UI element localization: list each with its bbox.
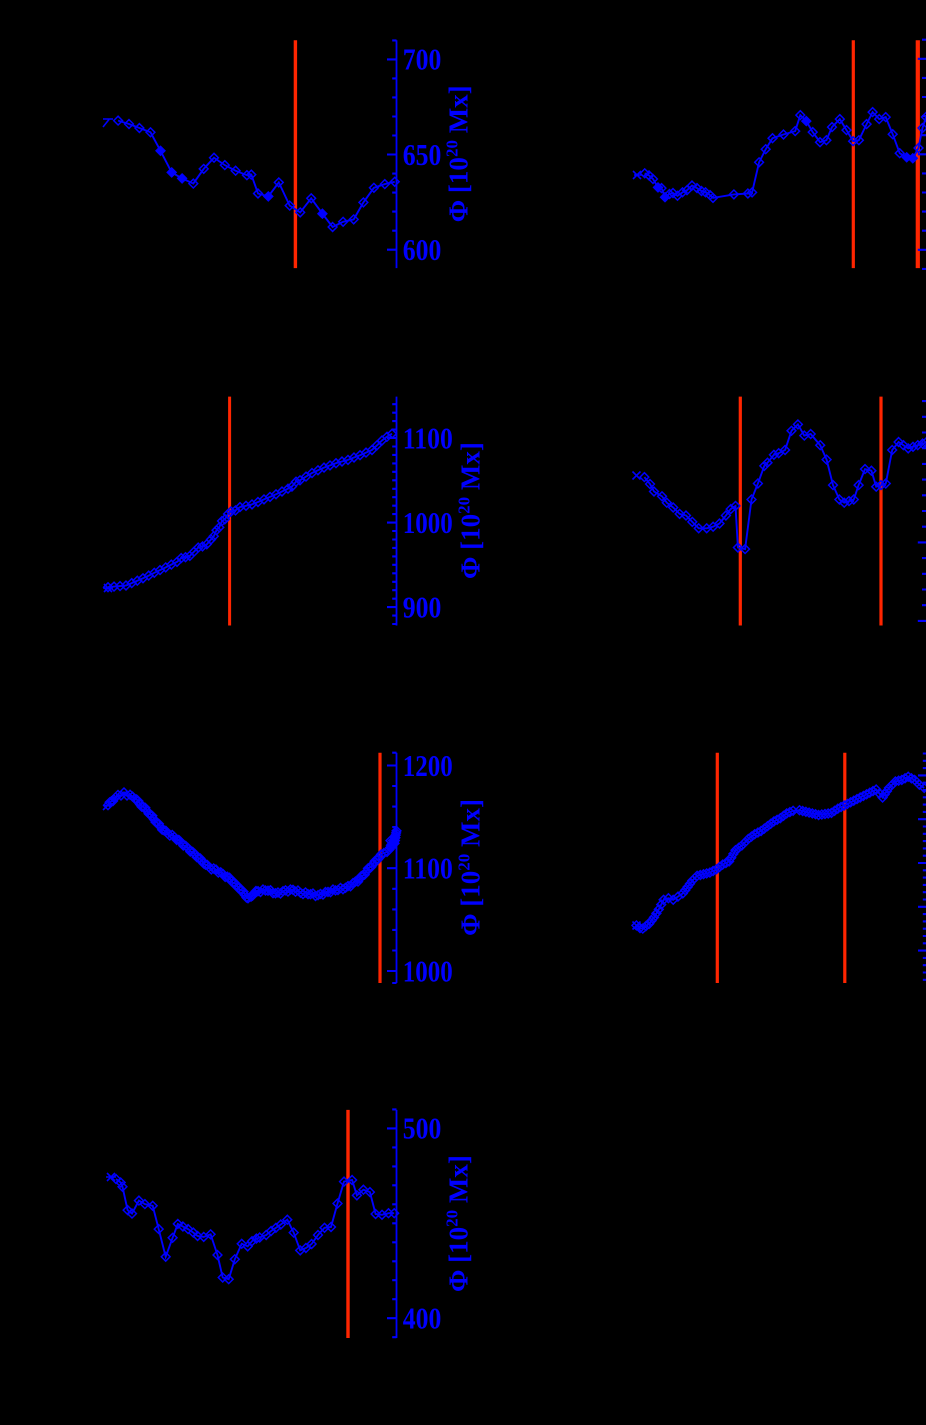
svg-text:650: 650 [403, 137, 442, 172]
panel 1 left y-axis line [396, 40, 398, 268]
panel 2 right flare line A [739, 397, 742, 626]
panel 2 left curve diamond markers [104, 429, 397, 591]
panel 1 left start mark [103, 119, 113, 127]
panel 1 right curve line [645, 112, 926, 198]
filled diamond markers (overlapping data points) [156, 117, 917, 218]
panel 2 right edge minor ticks [922, 401, 926, 605]
panel 1 right edge major ticks [918, 59, 926, 250]
svg-text:700: 700 [403, 42, 442, 77]
svg-text:900: 900 [403, 589, 442, 624]
svg-text:1100: 1100 [403, 851, 453, 886]
svg-text:1200: 1200 [403, 748, 453, 783]
panel 1 right curve diamond markers [640, 108, 926, 203]
panel 4 left flare line [346, 1110, 349, 1338]
panel 4 minor ticks [392, 1109, 396, 1337]
panel 3 minor ticks [392, 753, 396, 983]
svg-text:600: 600 [403, 232, 442, 267]
panel 1 right start mark [633, 171, 642, 179]
panel 1 right edge minor ticks [922, 40, 926, 269]
svg-text:1100: 1100 [403, 420, 453, 455]
svg-text:500: 500 [403, 1111, 442, 1146]
panel 2 left y-axis line [396, 397, 398, 626]
panel 2 major ticks [387, 438, 397, 607]
panel 2 left curve line [108, 434, 392, 588]
panel 2 right start mark [633, 472, 641, 480]
panel 3 major ticks [387, 766, 397, 972]
panel 4 left y-axis line [396, 1110, 398, 1338]
panel 2 right flare line B [879, 397, 882, 626]
panel 2 left flare line [228, 397, 231, 626]
panel 3 right flare line A [716, 753, 719, 983]
panel 3 right edge major ticks [918, 775, 926, 950]
panel 3 left start mark [103, 804, 111, 810]
panel 4 left curve line [116, 1179, 394, 1279]
panel 1 left curve diamond markers [114, 116, 399, 231]
panel 4 left curve diamond markers [112, 1175, 399, 1284]
svg-text:1000: 1000 [403, 953, 453, 988]
panel 4 major ticks [387, 1128, 397, 1318]
panel 1 left curve line [118, 121, 395, 227]
panel 3 right start mark [633, 922, 641, 930]
panel 1 minor ticks [392, 40, 396, 230]
panel 1 left flare line [294, 40, 297, 268]
panel 2 right curve diamond markers [640, 420, 926, 554]
panel 3 right curve diamond markers [632, 772, 926, 933]
panel 3 left y-axis line [396, 753, 398, 983]
svg-text:1000: 1000 [403, 505, 453, 540]
panel 1 right flare line A [852, 40, 855, 268]
panel 4 left start mark [106, 1173, 116, 1181]
panel 3 right edge minor ticks [923, 754, 926, 980]
panel 2 right edge major ticks [918, 542, 926, 621]
svg-text:400: 400 [403, 1301, 442, 1336]
panel 1 right flare line B [916, 40, 920, 268]
panel 3 right curve line [636, 777, 924, 929]
panel 3 right flare line B [843, 753, 846, 983]
panel 2 minor ticks [392, 404, 396, 624]
panel 3 left flare line [378, 753, 381, 983]
panel 3 left curve diamond markers [104, 788, 401, 903]
panel 2 right curve line [644, 424, 926, 549]
panel 1 major ticks [387, 59, 397, 249]
panel 3 left curve line [108, 792, 397, 898]
panel 2 left start mark [103, 584, 113, 592]
